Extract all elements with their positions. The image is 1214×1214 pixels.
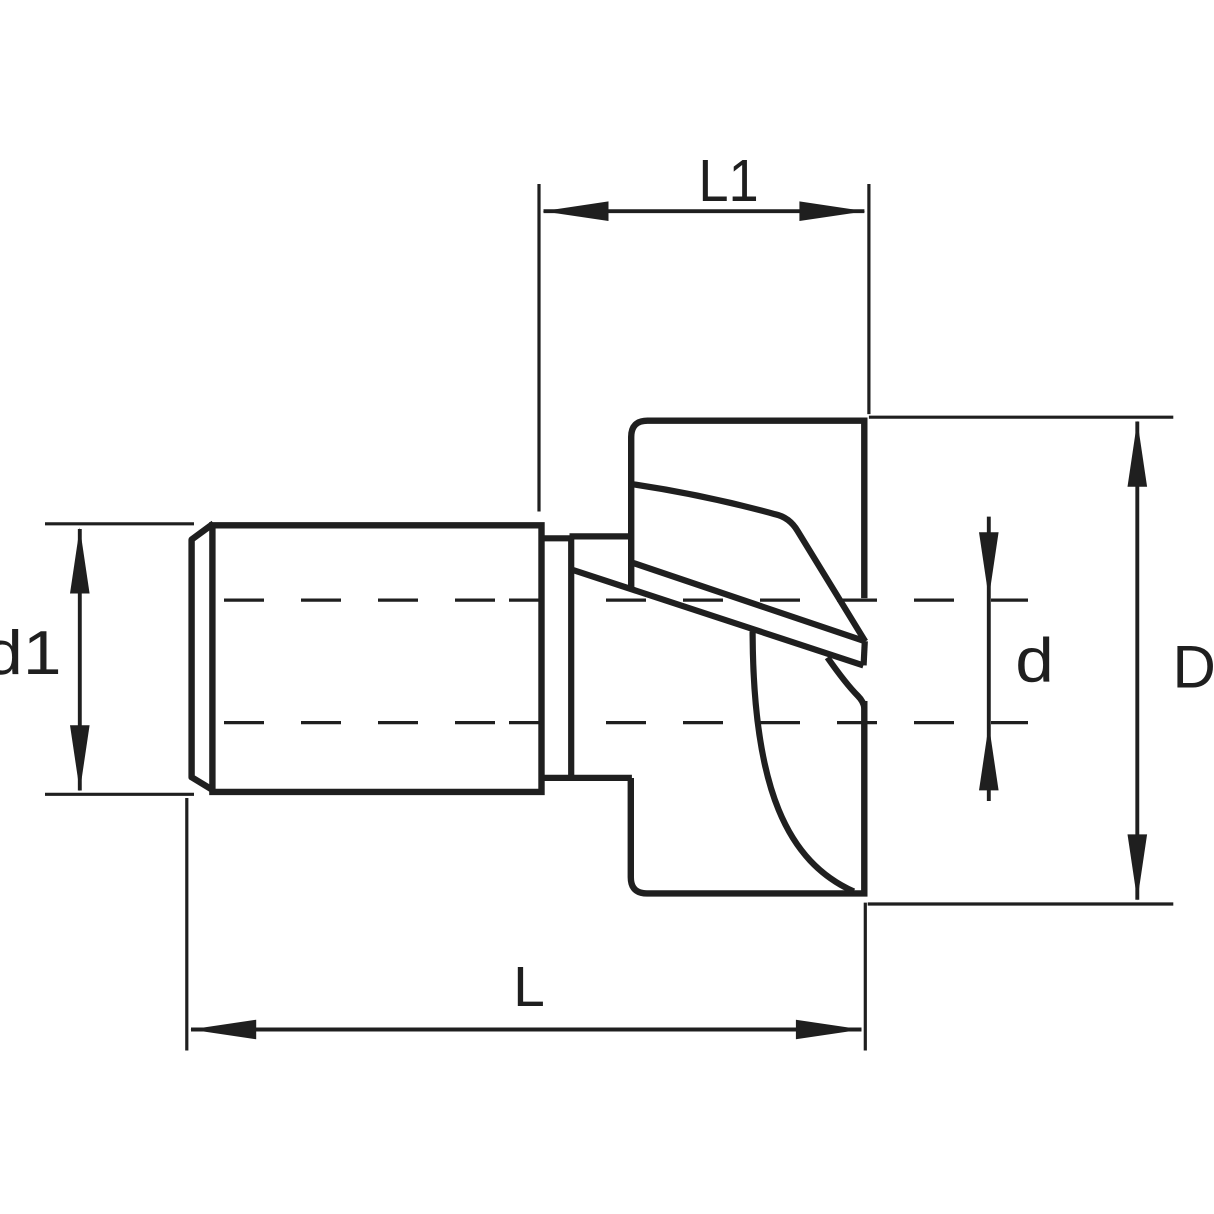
- neck top edge: [570, 533, 632, 539]
- d1 arrow down: [70, 725, 90, 791]
- d arrow up (below bore): [979, 724, 999, 790]
- bore centerline lower (dashed): [224, 721, 1028, 724]
- svg-text:L: L: [513, 955, 545, 1019]
- L1 extension line right: [867, 184, 870, 414]
- shank body outline: [212, 525, 541, 792]
- L dimension line: [191, 1028, 862, 1032]
- flute top edge (gentle slope into steep face): [631, 484, 865, 642]
- cutter head upper outline: back face, rounded corner, top edge, right face upper segment: [631, 421, 864, 598]
- neck bottom edge: [542, 775, 632, 781]
- L1 arrow left: [543, 201, 609, 221]
- d1 extension line top: [45, 522, 194, 525]
- svg-text:d: d: [1015, 625, 1054, 695]
- L1 dimension line: [544, 209, 865, 213]
- L extension line right: [864, 903, 867, 1051]
- flute large arc: [753, 632, 854, 892]
- d arrow down (above bore): [979, 532, 999, 598]
- svg-text:D: D: [1173, 634, 1214, 701]
- insert right end face: [864, 641, 865, 665]
- gash arc at right: [827, 658, 864, 709]
- L extension line left: [185, 798, 188, 1051]
- D arrow down: [1128, 834, 1148, 900]
- d dimension line: [987, 517, 991, 801]
- D extension line bottom: [868, 902, 1174, 905]
- L1 extension line left: [537, 184, 540, 512]
- D dimension line: [1135, 422, 1139, 900]
- d1 dimension line: [78, 529, 82, 791]
- d1 arrow up: [70, 528, 90, 594]
- cutter head lower outline: back face lower, rounded corner, bottom edge, right face lower segment: [631, 701, 865, 893]
- d1 extension line bottom: [45, 793, 194, 796]
- insert upper diagonal: [631, 562, 865, 641]
- collar right face: [568, 536, 574, 777]
- L arrow left: [190, 1020, 256, 1040]
- bore centerline upper (dashed): [224, 598, 1028, 601]
- hub collar top edge: [542, 535, 572, 541]
- L arrow right: [796, 1020, 862, 1040]
- L1 arrow right: [799, 201, 865, 221]
- D arrow up: [1128, 421, 1148, 487]
- svg-text:d1: d1: [0, 617, 61, 687]
- shank left end cap with chamfers: [192, 524, 214, 791]
- svg-text:L1: L1: [698, 149, 758, 215]
- insert lower diagonal: [571, 569, 863, 665]
- D extension line top: [869, 416, 1173, 419]
